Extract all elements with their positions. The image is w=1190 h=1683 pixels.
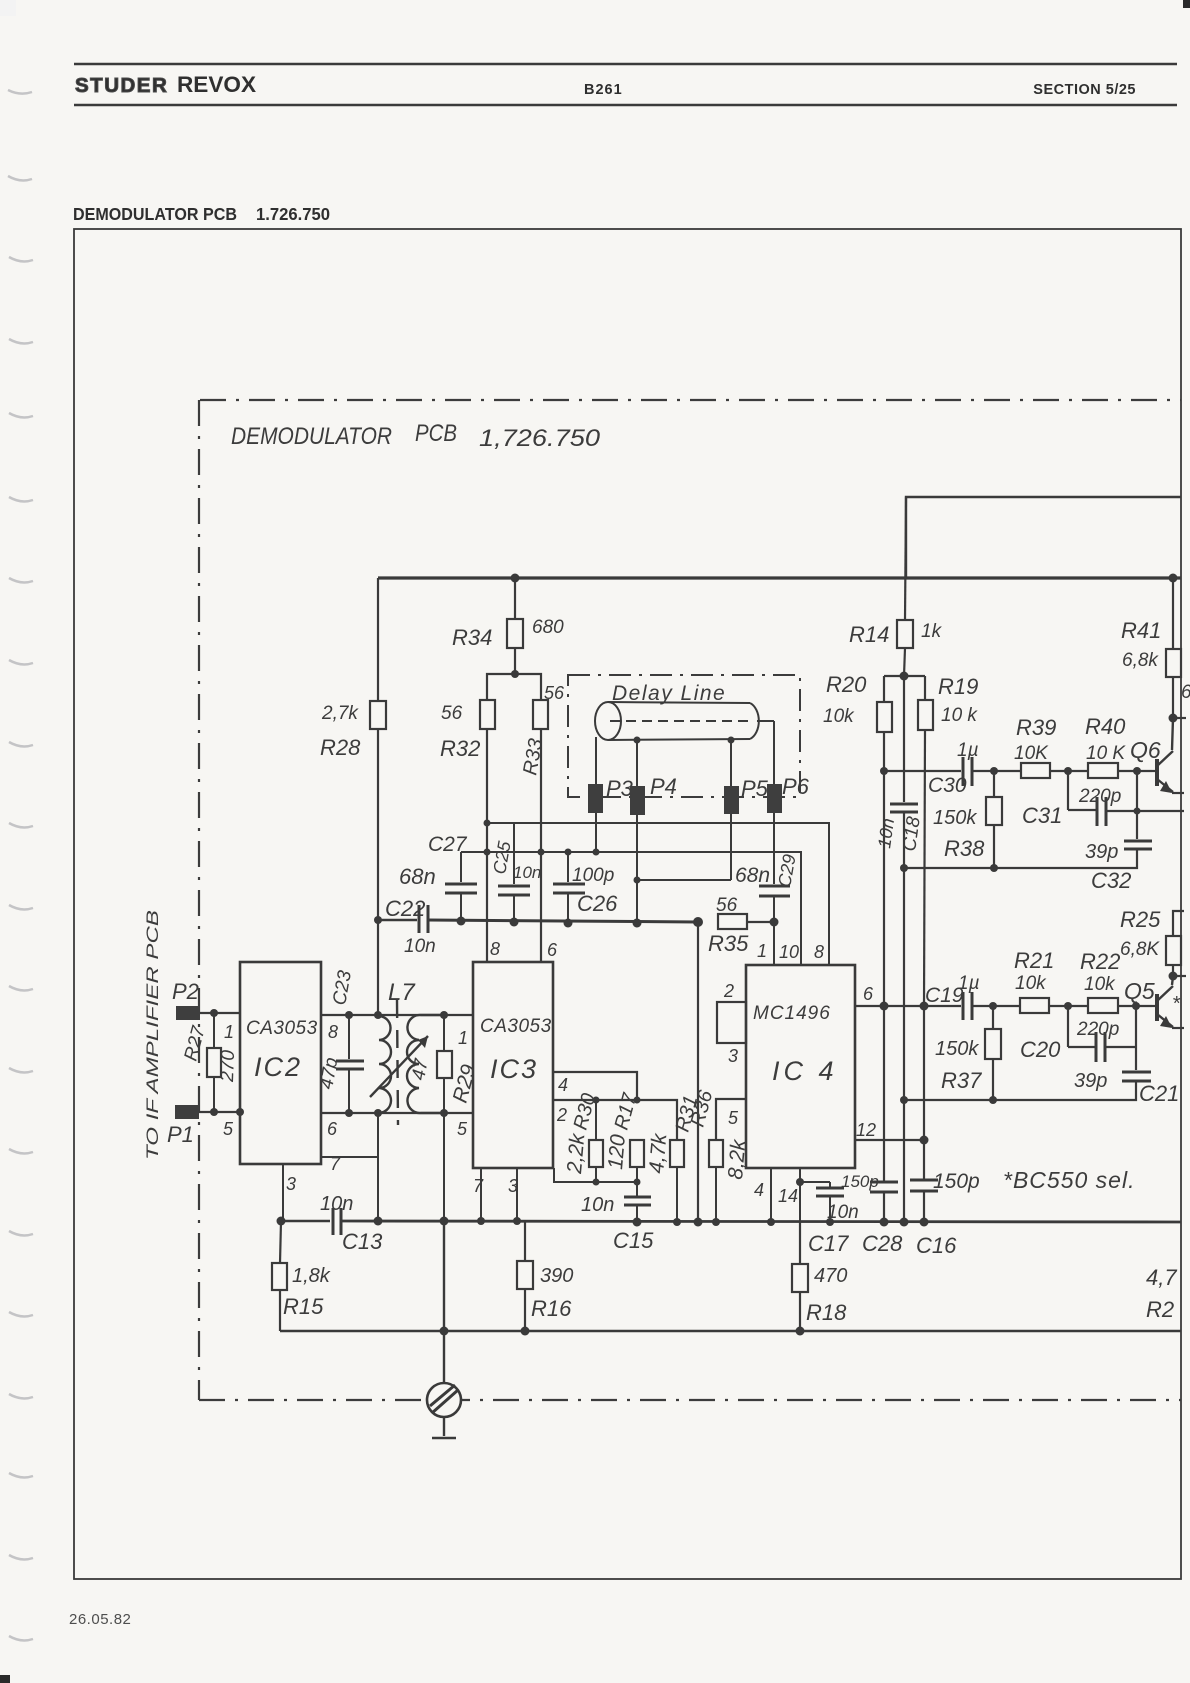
wire: R14 column from y497 corner <box>905 497 906 620</box>
header rule bottom <box>74 104 1177 107</box>
wire: y1005 line IC4 pin6 to Q5 <box>884 1005 961 1007</box>
svg-text:2: 2 <box>556 1105 567 1125</box>
resistor R15 1,8k <box>280 1221 281 1263</box>
svg-text:Q5: Q5 <box>1124 978 1155 1004</box>
svg-text:C21: C21 <box>1139 1081 1179 1106</box>
wire: P2 to IC2 pin1 <box>200 1012 240 1014</box>
svg-text:MC1496: MC1496 <box>753 1003 831 1024</box>
resistor R32 56 <box>480 700 495 729</box>
wire: y1182 link <box>554 1168 637 1182</box>
resistor R20 10k <box>877 702 892 732</box>
wire: IC4 pin5 to R36 <box>716 1099 746 1140</box>
wire: column x=1137 down <box>1136 771 1138 839</box>
svg-text:2: 2 <box>723 981 734 1001</box>
svg-text:4: 4 <box>754 1180 764 1200</box>
wire: pin1 column IC4 <box>773 922 775 965</box>
svg-text:1,726.750: 1,726.750 <box>479 425 601 452</box>
svg-text:10k: 10k <box>823 706 855 727</box>
resistor R39 10K <box>1021 763 1050 778</box>
svg-text:39p: 39p <box>1085 841 1118 863</box>
capacitor C32 39p <box>1124 840 1152 843</box>
resistor R16 390 <box>524 1221 526 1261</box>
node: junction y771 left <box>880 767 888 775</box>
svg-text:Q6: Q6 <box>1130 737 1161 763</box>
resistor R28 2,7k <box>370 701 386 729</box>
svg-text:IC3: IC3 <box>490 1054 538 1084</box>
svg-text:5: 5 <box>223 1119 234 1139</box>
svg-text:P3: P3 <box>606 776 634 801</box>
capacitor C17 10n <box>800 1181 830 1183</box>
resistor R36 8,2k <box>709 1140 723 1167</box>
pot P6 <box>767 784 782 813</box>
svg-text:6: 6 <box>547 940 558 960</box>
svg-text:10: 10 <box>779 942 799 962</box>
svg-text:100p: 100p <box>572 865 614 886</box>
wire: ground rail y=1331 <box>280 1330 1181 1332</box>
svg-text:C20: C20 <box>1020 1037 1061 1062</box>
svg-text:10 K: 10 K <box>1086 743 1126 764</box>
svg-text:68n: 68n <box>735 864 770 887</box>
svg-text:1: 1 <box>757 941 767 961</box>
svg-text:120: 120 <box>604 1133 630 1170</box>
capacitor C21 39p <box>1122 1071 1151 1074</box>
svg-text:R34: R34 <box>452 625 492 650</box>
ground symbol <box>427 1383 461 1417</box>
wire: IC4 pin14 column <box>799 1168 801 1222</box>
svg-text:PCB: PCB <box>415 420 457 447</box>
node: junctions on y1100 line <box>900 1096 908 1104</box>
svg-text:P6: P6 <box>782 774 810 799</box>
svg-text:R16: R16 <box>531 1296 572 1321</box>
node: bus2 junctions <box>277 1217 286 1226</box>
svg-text:8: 8 <box>490 939 500 959</box>
wire: row2 y=852 <box>461 852 801 962</box>
capacitor C30 1u <box>962 757 965 786</box>
svg-text:150k: 150k <box>935 1038 979 1060</box>
wire: IC4 pin4 column <box>770 1168 772 1222</box>
svg-text:CA3053: CA3053 <box>480 1016 552 1037</box>
svg-text:P1: P1 <box>167 1122 194 1147</box>
svg-text:L7: L7 <box>388 979 416 1006</box>
wire: P6 column through C29 <box>773 813 775 884</box>
svg-text:4,7k: 4,7k <box>645 1131 672 1174</box>
svg-text:10 k: 10 k <box>941 705 978 726</box>
svg-text:4,7: 4,7 <box>1146 1265 1177 1290</box>
svg-text:4: 4 <box>558 1075 568 1095</box>
resistor R29 47 <box>443 1015 445 1051</box>
capacitor C27 68n <box>460 852 462 882</box>
wire: center column x=698 <box>697 922 699 1222</box>
delay line dash-dot box <box>568 675 800 797</box>
svg-text:R21: R21 <box>1014 948 1054 973</box>
outer frame <box>74 229 1181 1579</box>
svg-text:R15: R15 <box>283 1294 324 1319</box>
wire: P4 lower column to bus2 <box>636 815 638 923</box>
capacitor C18 10n <box>890 803 918 806</box>
svg-text:C27: C27 <box>428 833 468 856</box>
IC3 box CA3053 <box>473 962 553 1168</box>
wire: IC2 pin6 line y1113 <box>321 1112 473 1114</box>
svg-text:270: 270 <box>217 1049 239 1083</box>
svg-text:C15: C15 <box>613 1228 654 1253</box>
svg-text:R18: R18 <box>806 1300 847 1325</box>
capacitor C25 10n <box>513 823 515 884</box>
wire: IC2 pin8 line y1015 <box>321 1014 473 1016</box>
capacitor C19 1u <box>962 992 965 1020</box>
wire: y771 line to Q6 base <box>884 770 961 772</box>
resistor R18 470 <box>799 1222 801 1264</box>
node: bus junction at R34 <box>511 574 520 583</box>
header rule top <box>74 63 1177 66</box>
resistor R37 150k <box>992 1006 994 1029</box>
svg-text:10K: 10K <box>1014 743 1049 764</box>
capacitor C15 10n <box>624 1196 651 1199</box>
svg-text:R22: R22 <box>1080 949 1120 974</box>
svg-text:CA3053: CA3053 <box>246 1018 318 1039</box>
svg-text:R38: R38 <box>944 836 985 861</box>
svg-text:10n: 10n <box>404 936 436 957</box>
svg-text:DEMODULATOR: DEMODULATOR <box>231 423 392 450</box>
svg-text:68n: 68n <box>399 864 436 889</box>
svg-text:IC2: IC2 <box>254 1052 302 1082</box>
capacitor C23 47p <box>348 1015 350 1059</box>
svg-text:SECTION 5/25: SECTION 5/25 <box>1033 82 1136 98</box>
svg-text:R25: R25 <box>1120 907 1161 932</box>
svg-text:10k: 10k <box>1084 974 1116 995</box>
svg-text:150p: 150p <box>841 1172 879 1191</box>
svg-text:150k: 150k <box>933 807 977 829</box>
svg-text:1: 1 <box>224 1022 234 1042</box>
svg-text:REVOX: REVOX <box>177 72 256 97</box>
svg-text:39p: 39p <box>1074 1070 1107 1092</box>
wire: R14 column down through C18 <box>903 676 905 802</box>
svg-text:10n: 10n <box>320 1193 353 1215</box>
svg-text:7: 7 <box>473 1176 484 1196</box>
svg-text:56: 56 <box>544 683 565 703</box>
capacitor C20 220p <box>1067 1006 1069 1047</box>
resistor R14 1k <box>897 620 913 648</box>
svg-text:R40: R40 <box>1085 714 1126 739</box>
node: bus junction at R41 <box>1169 574 1178 583</box>
wire: top line y=497 to frame edge <box>906 497 1181 578</box>
node: junctions on y868 line <box>900 864 908 872</box>
svg-text:220p: 220p <box>1076 1019 1119 1040</box>
resistor R33 56 <box>533 700 548 729</box>
wire: IC4 pin6 <box>855 1005 884 1007</box>
pot P5 <box>724 786 739 814</box>
wire: center ground column <box>443 1221 445 1384</box>
svg-text:C32: C32 <box>1091 868 1131 893</box>
transistor Q6 <box>1155 759 1159 786</box>
connector P2 <box>176 1006 200 1020</box>
wire: R34 column <box>514 578 516 674</box>
svg-text:P5: P5 <box>741 776 769 801</box>
svg-text:1,8k: 1,8k <box>292 1265 331 1287</box>
svg-text:C16: C16 <box>916 1233 957 1258</box>
delay line cylinder <box>595 702 774 740</box>
svg-text:C17: C17 <box>808 1231 849 1256</box>
svg-text:150p: 150p <box>933 1170 980 1193</box>
node: junction under R34 <box>511 670 519 678</box>
svg-text:C26: C26 <box>577 891 618 916</box>
wire: pin10 pin8 columns <box>800 852 802 965</box>
svg-text:STUDER: STUDER <box>75 74 168 97</box>
svg-text:1: 1 <box>458 1028 468 1048</box>
capacitor C26 100p <box>567 852 569 882</box>
svg-text:R28: R28 <box>320 735 361 760</box>
wire: bottom bus y=1222 <box>281 1220 330 1223</box>
resistor R31 4,7k <box>670 1140 684 1167</box>
svg-text:B261: B261 <box>584 82 623 98</box>
PCB dash-dot border <box>199 400 1181 1400</box>
svg-text:14: 14 <box>778 1186 798 1206</box>
svg-text:2,7k: 2,7k <box>321 703 359 724</box>
wire: +supply bus y=578 <box>378 576 1181 579</box>
svg-text:C31: C31 <box>1022 803 1062 828</box>
svg-text:8: 8 <box>328 1022 338 1042</box>
svg-text:P2: P2 <box>172 979 199 1004</box>
svg-text:C30: C30 <box>928 774 967 797</box>
svg-text:C13: C13 <box>342 1229 383 1254</box>
binder hole marks left edge <box>8 90 33 1640</box>
capacitor C16 150p <box>910 1179 938 1182</box>
capacitor C22 10n <box>418 905 421 933</box>
svg-text:R41: R41 <box>1121 618 1161 643</box>
svg-text:R20: R20 <box>826 672 867 697</box>
svg-text:6,8k: 6,8k <box>1122 650 1159 671</box>
svg-text:220p: 220p <box>1078 786 1121 807</box>
wire: R28 column from bus corner <box>377 578 379 701</box>
svg-text:R32: R32 <box>440 736 480 761</box>
resistor R41 6,8k <box>1172 578 1174 649</box>
IC4 pin2 side box <box>717 1002 746 1043</box>
svg-text:DEMODULATOR PCB: DEMODULATOR PCB <box>73 204 237 224</box>
wire: R19 column down <box>924 730 925 1006</box>
svg-text:12: 12 <box>856 1120 876 1140</box>
svg-text:1.726.750: 1.726.750 <box>256 204 330 224</box>
connector P1 <box>175 1105 199 1119</box>
resistor R40 10K <box>1088 763 1118 778</box>
IC2 box CA3053 <box>240 962 321 1164</box>
wire: C16 C28 column continuations <box>883 1192 885 1222</box>
wire: R20 column down <box>883 732 885 1006</box>
svg-text:10n: 10n <box>874 817 898 850</box>
capacitor C28 150p <box>870 1181 898 1184</box>
wire: IC4 pin12 <box>855 1139 924 1141</box>
svg-text:R35: R35 <box>708 931 749 956</box>
wire: x378 column into L7 <box>377 918 379 1015</box>
svg-text:56: 56 <box>716 895 738 916</box>
svg-text:C22: C22 <box>385 896 425 921</box>
svg-text:8: 8 <box>814 942 824 962</box>
wire: branch to R20 R19 <box>884 675 925 677</box>
svg-text:IC 4: IC 4 <box>772 1056 838 1086</box>
wire: P1 to IC2 pin5 <box>199 1111 240 1113</box>
svg-text:470: 470 <box>814 1265 847 1287</box>
wire: branch to R32 and R33 <box>487 674 541 700</box>
resistor R25 6,8k <box>1173 911 1184 936</box>
svg-text:R14: R14 <box>849 622 889 647</box>
wire: IC3 pin4 line <box>553 1072 637 1100</box>
IC4 box MC1496 <box>746 965 855 1168</box>
svg-text:6: 6 <box>863 984 874 1004</box>
resistor R38 150k <box>993 771 995 797</box>
svg-text:R37: R37 <box>941 1068 982 1093</box>
svg-text:R19: R19 <box>938 674 978 699</box>
capacitor C31 220p <box>1067 771 1069 810</box>
svg-text:8,2k: 8,2k <box>724 1137 751 1180</box>
wire: columns above bus2 <box>282 1164 284 1221</box>
svg-text:56: 56 <box>441 703 463 724</box>
svg-text:10n: 10n <box>581 1194 614 1216</box>
resistor R19 10k <box>918 700 933 730</box>
svg-text:6: 6 <box>327 1119 338 1139</box>
resistor R21 10k <box>1020 998 1049 1013</box>
wire: IC3 pin2 line y1100 <box>553 1100 677 1140</box>
resistor R34 <box>507 619 523 648</box>
svg-text:C28: C28 <box>862 1231 903 1256</box>
wire: C22 bus y=920 <box>378 919 417 921</box>
wire: row3 y=880 P4 to P5 <box>637 879 731 881</box>
wire: P5 lower column to row3 <box>730 814 732 880</box>
svg-text:26.05.82: 26.05.82 <box>69 1611 131 1628</box>
pot P3 <box>588 784 603 813</box>
svg-text:R2: R2 <box>1146 1297 1174 1322</box>
svg-text:P4: P4 <box>650 774 677 799</box>
svg-text:1µ: 1µ <box>958 973 980 994</box>
pot P4 <box>630 786 645 815</box>
svg-text:R39: R39 <box>1016 715 1056 740</box>
svg-text:680: 680 <box>532 617 564 638</box>
svg-text:5: 5 <box>728 1108 739 1128</box>
transistor Q5 <box>1155 994 1159 1021</box>
wire: taps to pots <box>595 737 597 784</box>
svg-text:*BC550 sel.: *BC550 sel. <box>1003 1167 1135 1193</box>
svg-text:1k: 1k <box>921 621 943 642</box>
capacitor C13 10n <box>332 1208 335 1235</box>
wire: row1 y=823 <box>487 823 829 962</box>
svg-text:TO IF AMPLIFIER PCB: TO IF AMPLIFIER PCB <box>143 910 162 1160</box>
wire: column x=1136 down <box>1135 1006 1137 1070</box>
svg-text:6: 6 <box>1181 682 1190 703</box>
svg-text:*: * <box>1172 993 1181 1015</box>
capacitor C29 68n <box>759 885 790 888</box>
svg-text:390: 390 <box>540 1265 573 1287</box>
svg-text:6,8K: 6,8K <box>1120 939 1160 960</box>
node: R38 junction <box>990 767 998 775</box>
svg-text:1µ: 1µ <box>957 740 979 761</box>
page corner marks <box>1183 0 1190 8</box>
svg-text:10n: 10n <box>513 863 541 882</box>
resistor R17 120 <box>630 1140 644 1167</box>
resistor R22 10k <box>1088 998 1118 1013</box>
svg-text:2,2k: 2,2k <box>563 1131 590 1175</box>
resistor R35 56 <box>718 914 747 929</box>
svg-text:10k: 10k <box>1015 973 1047 994</box>
wire: P3 lower column to row2 <box>595 813 597 852</box>
resistor R30 2,2k <box>595 1100 597 1140</box>
resistor R27 270 <box>213 1013 215 1048</box>
svg-text:3: 3 <box>286 1174 296 1194</box>
svg-text:3: 3 <box>728 1046 738 1066</box>
svg-text:5: 5 <box>457 1119 468 1139</box>
